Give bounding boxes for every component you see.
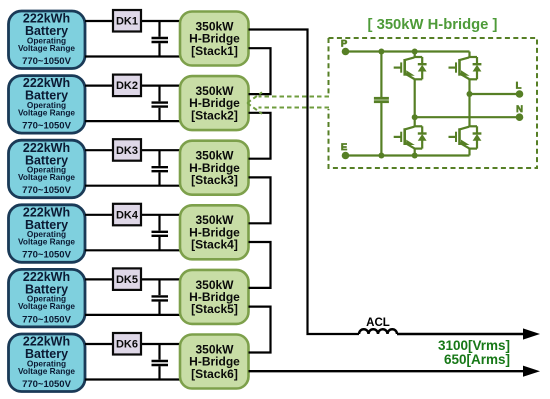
node E (negative DC terminal) [341,142,349,159]
wire stack 1 N output to stack 2 L input (series link) [249,48,271,94]
diode D1 (anti-parallel) [418,57,427,79]
svg-text:770~1050V: 770~1050V [22,121,72,132]
svg-text:Voltage Range: Voltage Range [18,43,75,53]
svg-text:Voltage Range: Voltage Range [18,237,75,247]
wire battery B6 + terminal to DK6 [85,343,113,345]
battery B4 (222kWh) [9,205,86,262]
battery B1 (222kWh) [9,11,86,69]
switch DK4 [113,204,141,226]
battery B3 (222kWh) [9,140,86,198]
wire battery B4 + terminal to DK4 [85,214,113,216]
wire battery B1 - terminal to stack 1 DC- input [85,55,180,57]
inductor ACL [359,317,397,334]
svg-text:L: L [516,81,522,92]
battery B2 (222kWh) [9,76,86,134]
wire DK4 to stack 4 DC+ input [141,214,180,216]
wire stack 2 N output to stack 3 L input (series link) [249,113,271,159]
wire stack 5 N output to stack 6 L input (series link) [249,307,271,353]
svg-text:650[Arms]: 650[Arms] [444,352,510,367]
wire battery B6 - terminal to stack 6 DC- input [85,378,180,380]
wire DK1 to stack 1 DC+ input [141,20,180,22]
capacitor C3 (DC-link) [152,150,169,186]
diode D4 (anti-parallel) [473,126,482,148]
H-bridge converter stack 3 (350kW) [180,141,249,195]
H-bridge converter stack 1 (350kW) [180,12,249,66]
wire DK3 to stack 3 DC+ input [141,149,180,151]
wire battery B5 + terminal to DK5 [85,278,113,280]
callout dashed arrow from detail box to stack 2 [247,92,329,114]
svg-text:[Stack5]: [Stack5] [191,302,238,316]
svg-text:N: N [516,104,523,115]
wire left leg midpoint to node N [415,116,520,118]
diode D2 (anti-parallel) [473,57,482,79]
wire right leg midpoint to node L [470,93,520,95]
H-bridge converter stack 6 (350kW) [180,335,249,389]
wire battery B2 + terminal to DK2 [85,84,113,86]
wire battery B4 - terminal to stack 4 DC- input [85,249,180,251]
switch DK2 [113,75,141,97]
dashed enclosure box of H-bridge detail [329,38,538,168]
capacitor C1 (DC-link) [152,21,169,57]
svg-text:Voltage Range: Voltage Range [18,107,75,117]
wire battery B3 + terminal to DK3 [85,149,113,151]
wire bottom DC rail E [346,154,470,156]
svg-text:DK1: DK1 [116,16,138,28]
svg-text:Voltage Range: Voltage Range [18,366,75,376]
svg-text:770~1050V: 770~1050V [22,250,72,261]
capacitor C6 (DC-link) [152,344,169,380]
svg-text:DK6: DK6 [116,339,138,351]
wire battery B2 - terminal to stack 2 DC- input [85,120,180,122]
node L (AC output terminal) [516,81,524,98]
wire stack 3 N output to stack 4 L input (series link) [249,177,271,223]
svg-text:E: E [341,142,347,153]
capacitor C-dc (DC-link of detail) [374,52,389,156]
arrow AC output bottom [523,366,540,377]
svg-text:DK5: DK5 [116,274,138,286]
svg-text:Voltage Range: Voltage Range [18,301,75,311]
svg-text:3100[Vrms]: 3100[Vrms] [438,338,510,353]
wire DK5 to stack 5 DC+ input [141,278,180,280]
transistor Q4 lower-right (IGBT) [449,94,478,156]
svg-text:[Stack1]: [Stack1] [191,44,238,58]
switch DK3 [113,139,141,161]
capacitor C5 (DC-link) [152,279,169,315]
arrow AC output top [523,328,540,339]
transistor Q2 upper-right (IGBT) [449,52,478,95]
svg-text:770~1050V: 770~1050V [22,379,72,390]
node N (AC output terminal) [516,104,524,121]
svg-text:770~1050V: 770~1050V [22,56,72,67]
wire battery B1 + terminal to DK1 [85,20,113,22]
H-bridge converter stack 2 (350kW) [180,76,249,130]
capacitor C4 (DC-link) [152,215,169,251]
svg-text:[Stack4]: [Stack4] [191,238,238,252]
wire stack 6 N output to AC return line [249,370,526,372]
H-bridge converter stack 4 (350kW) [180,205,249,259]
wire stack 4 N output to stack 5 L input (series link) [249,242,271,288]
node P (positive DC terminal) [341,39,349,56]
battery B5 (222kWh) [9,269,86,327]
junction dots of detail schematic [378,49,472,159]
wire ACL to AC output (phase line) [397,333,525,335]
wire battery B3 - terminal to stack 3 DC- input [85,185,180,187]
wire DK2 to stack 2 DC+ input [141,84,180,86]
svg-text:DK4: DK4 [116,209,139,221]
svg-text:[ 350kW H-bridge ]: [ 350kW H-bridge ] [368,17,498,33]
switch DK5 [113,268,141,290]
svg-text:[Stack6]: [Stack6] [191,367,238,381]
switch DK1 [113,10,141,32]
H-bridge converter stack 5 (350kW) [180,270,249,324]
capacitor C2 (DC-link) [152,86,169,122]
svg-text:[Stack2]: [Stack2] [191,108,238,122]
svg-text:DK3: DK3 [116,145,138,157]
svg-text:P: P [341,39,348,50]
switch DK6 [113,333,141,355]
wire top DC rail P [346,50,470,52]
battery B6 (222kWh) [9,334,86,392]
svg-text:[Stack3]: [Stack3] [191,173,238,187]
wire battery B5 - terminal to stack 5 DC- input [85,314,180,316]
gap in dashed box border at callout [327,95,330,109]
svg-text:770~1050V: 770~1050V [22,185,72,196]
svg-text:Voltage Range: Voltage Range [18,172,75,182]
svg-text:ACL: ACL [366,317,390,329]
wire DK6 to stack 6 DC+ input [141,343,180,345]
transistor Q1 upper-left (IGBT) [394,52,423,118]
wire stack 1 L output down to ACL (right bus) [249,30,360,335]
diode D3 (anti-parallel) [418,126,427,148]
svg-text:DK2: DK2 [116,80,138,92]
transistor Q3 lower-left (IGBT) [394,117,423,156]
svg-text:770~1050V: 770~1050V [22,314,72,325]
